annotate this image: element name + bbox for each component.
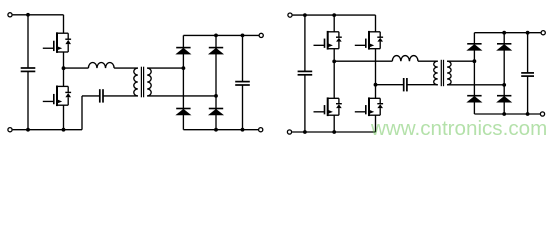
inductor Lr (right circuit) xyxy=(392,56,418,62)
wire node A to inductor (left) xyxy=(64,67,89,69)
transistor Q1 (left circuit high-side MOSFET) xyxy=(43,32,71,53)
wire input cap upper lead (right) xyxy=(304,15,306,71)
wire secondary bottom lead (right) xyxy=(447,84,504,86)
diode D3 (left bridge lower-left) xyxy=(176,109,190,116)
capacitor Cr (left circuit) xyxy=(100,89,103,102)
node bridge top output cap (left) xyxy=(241,34,245,38)
capacitor Cin (left circuit) xyxy=(21,68,36,71)
node secondary bottom / bridge right leg (left) xyxy=(214,94,218,98)
wire output cap upper lead (right) xyxy=(527,33,529,73)
wire Cr to return elbow (left) xyxy=(82,95,100,97)
wire output cap lower lead (left) xyxy=(242,85,244,130)
node bottom rail / Q2 source (left) xyxy=(62,128,66,132)
wire bridge top rail (left) xyxy=(183,34,258,36)
transistor Q2 (left circuit low-side MOSFET) xyxy=(43,86,71,107)
wire secondary top lead (left) xyxy=(147,67,183,69)
node secondary top / bridge left leg (left) xyxy=(182,66,186,70)
diode D6 (right bridge upper-right) xyxy=(497,44,511,51)
wire input cap lower lead (left) xyxy=(27,71,29,129)
node top rail / leg1 (right) xyxy=(332,13,336,17)
wire Q5 drain (right leg2) xyxy=(375,15,377,32)
wire Q1 source to node A (left) xyxy=(63,52,65,86)
diode D2 (left bridge upper-right) xyxy=(209,48,223,55)
wire D6 anode to node (right) xyxy=(503,50,505,96)
input terminal + (left circuit) xyxy=(8,13,12,17)
wire D3 anode to bottom rail (left) xyxy=(182,115,184,130)
diode D5 (right bridge upper-left) xyxy=(467,44,481,51)
wire D1 anode to node (left) xyxy=(182,54,184,109)
node top rail / input cap (left) xyxy=(26,13,30,17)
wire inductor to transformer (right) xyxy=(418,60,438,62)
transistor Q5 (right circuit leg2 high-side) xyxy=(355,31,383,50)
diode D8 (right bridge lower-right) xyxy=(497,96,511,103)
wire bridge bottom rail (right) xyxy=(474,113,540,115)
wire inductor to transformer (left) xyxy=(114,67,138,69)
wire D2 anode to node (left) xyxy=(215,54,217,109)
transistor Q6 (right circuit leg2 low-side) xyxy=(355,97,383,116)
wire Cr return vertical (left) xyxy=(81,96,83,130)
node bridge top right leg (left) xyxy=(214,34,218,38)
wire D4 anode to bottom rail (left) xyxy=(215,115,217,130)
transistor Q4 (right circuit leg1 low-side) xyxy=(314,97,342,116)
wire bridge top rail (right) xyxy=(474,32,540,34)
wire bridge left leg upper (right) xyxy=(473,33,475,44)
wire secondary top lead (right) xyxy=(447,60,474,62)
node secondary bottom / bridge right leg (right) xyxy=(502,83,506,87)
transistor Q3 (right circuit leg1 high-side) xyxy=(314,31,342,50)
wire bridge bottom rail (left) xyxy=(183,129,258,131)
wire bridge right leg upper (left) xyxy=(215,35,217,47)
wire Cr to primary bottom (right) xyxy=(407,84,438,86)
wire Q3 drain (right leg1) xyxy=(333,15,335,32)
node top rail / input cap (right) xyxy=(303,13,307,17)
wire D8 anode to bottom rail (right) xyxy=(503,102,505,114)
node bottom rail / input cap (left) xyxy=(26,128,30,132)
output terminal + (left circuit) xyxy=(259,33,263,37)
wire input cap lower lead (right) xyxy=(304,75,306,132)
capacitor Cout (right circuit) xyxy=(521,73,534,76)
wire Q5 source to node C (right) xyxy=(375,49,377,99)
node bridge top output cap (right) xyxy=(526,31,530,35)
wire Q2 source to bottom rail (left) xyxy=(63,105,65,130)
capacitor Cr (right circuit) xyxy=(404,78,407,91)
node bridge bottom output cap (right) xyxy=(526,112,530,116)
node secondary top / bridge left leg (right) xyxy=(473,59,477,63)
wire Q6 source to bottom rail (right) xyxy=(375,115,377,132)
wire bridge left leg upper (left) xyxy=(182,35,184,47)
wire output cap lower lead (right) xyxy=(527,76,529,114)
diode D1 (left bridge upper-left) xyxy=(176,48,190,55)
input terminal + (right circuit) xyxy=(288,13,292,17)
wire top rail (left circuit) xyxy=(13,14,64,16)
node bridge bottom right leg (left) xyxy=(214,128,218,132)
svg-text:www.cntronics.com: www.cntronics.com xyxy=(370,117,547,140)
capacitor Cin (right circuit) xyxy=(298,71,313,74)
capacitor Cout (left circuit) xyxy=(235,82,250,85)
inductor Lr (left circuit) xyxy=(88,63,114,69)
node bottom rail / input cap (right) xyxy=(303,130,307,134)
diode D7 (right bridge lower-left) xyxy=(467,96,481,103)
node bottom rail / leg1 source (right) xyxy=(332,130,336,134)
wire top rail (right circuit) xyxy=(293,14,376,16)
output terminal + (right circuit) xyxy=(541,31,545,35)
output terminal - (right circuit) xyxy=(540,112,544,116)
output terminal - (left circuit) xyxy=(259,128,263,132)
wire bottom rail (right circuit) xyxy=(292,131,375,133)
diode D4 (left bridge lower-right) xyxy=(209,109,223,116)
wire bridge right leg upper (right) xyxy=(503,33,505,44)
wire Q4 source to bottom rail (right) xyxy=(333,115,335,132)
wire D7 anode to bottom rail (right) xyxy=(473,102,475,114)
node A half-bridge midpoint (left) xyxy=(62,66,66,70)
node bridge bottom right leg (right) xyxy=(502,112,506,116)
transformer T2 (right circuit) xyxy=(434,60,451,86)
wire secondary bottom lead (left) xyxy=(147,95,216,97)
wire primary bottom to Cr (left) xyxy=(103,95,138,97)
wire output cap upper lead (left) xyxy=(242,35,244,81)
node bridge top right leg (right) xyxy=(502,31,506,35)
node B leg1 midpoint (right) xyxy=(332,60,336,64)
wire Q3 source to node B (right) xyxy=(333,49,335,99)
wire node C to Cr (right) xyxy=(376,84,404,86)
wire node B to inductor (right) xyxy=(334,60,392,62)
node bridge bottom output cap (left) xyxy=(241,128,245,132)
wire Q1 drain (left) xyxy=(63,15,65,33)
input terminal - (left circuit) xyxy=(8,128,12,132)
input terminal - (right circuit) xyxy=(287,130,291,134)
wire input cap upper lead (left) xyxy=(27,15,29,68)
wire bottom rail (left circuit) xyxy=(13,129,82,131)
wire D5 anode to node (right) xyxy=(473,50,475,96)
transformer T1 (left circuit) xyxy=(134,67,151,98)
node C leg2 midpoint (right) xyxy=(374,83,378,87)
